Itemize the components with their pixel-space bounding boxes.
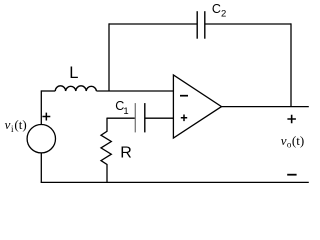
wire input left segment xyxy=(41,90,55,92)
label R xyxy=(120,144,132,161)
label vi(t) xyxy=(5,117,27,134)
svg-text:(t): (t) xyxy=(14,117,26,132)
capacitor C1 xyxy=(135,103,145,132)
wire bottom return xyxy=(41,181,309,183)
label C1 xyxy=(115,99,128,117)
capacitor C2 xyxy=(197,11,205,39)
svg-text:v: v xyxy=(5,117,11,132)
source plus sign xyxy=(42,113,50,121)
wire C1 to op-amp plus input xyxy=(145,117,174,119)
svg-text:2: 2 xyxy=(221,9,226,20)
svg-text:L: L xyxy=(69,64,78,82)
wire top feedback left segment xyxy=(109,23,197,25)
op-amp U1 xyxy=(173,75,221,138)
wire inductor to op-amp minus input xyxy=(96,90,173,92)
resistor R xyxy=(101,118,111,183)
label C2 xyxy=(212,2,226,19)
label L xyxy=(69,64,78,82)
svg-text:v: v xyxy=(281,133,287,148)
svg-text:R: R xyxy=(120,144,132,161)
op-amp minus pin symbol xyxy=(180,95,188,97)
wire C1 left / resistor top junction xyxy=(107,117,135,119)
wire op-amp output xyxy=(222,106,309,108)
output plus sign xyxy=(287,115,296,124)
voltage source vi xyxy=(27,90,55,182)
inductor L xyxy=(55,86,96,91)
svg-text:(t): (t) xyxy=(292,133,304,148)
wire top feedback right segment xyxy=(205,23,291,25)
output minus sign xyxy=(287,174,296,176)
wire feedback right vertical xyxy=(290,23,292,106)
label vo(t) xyxy=(281,133,304,150)
wire feedback left vertical xyxy=(108,23,110,91)
svg-text:C: C xyxy=(212,2,221,16)
svg-text:1: 1 xyxy=(123,106,128,117)
op-amp plus pin symbol xyxy=(181,115,187,122)
